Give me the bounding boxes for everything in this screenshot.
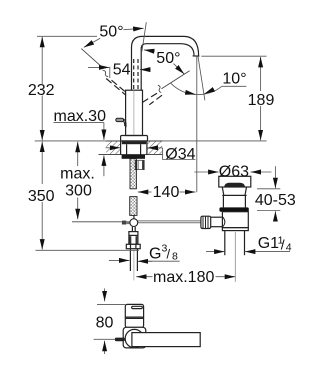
svg-text:Ø63: Ø63 xyxy=(219,164,249,181)
drain centerline xyxy=(234,232,236,282)
10 deg arc xyxy=(171,83,222,94)
dim 140 xyxy=(138,184,196,201)
swung spout dashed pair xyxy=(133,59,135,90)
deck top thick segment xyxy=(106,140,163,142)
base flange xyxy=(121,136,148,141)
deck hatching right xyxy=(147,141,162,154)
drain mid body xyxy=(222,195,224,207)
extension line at bend xyxy=(142,22,146,51)
deck hatching left xyxy=(106,141,120,154)
supply pipe centerline xyxy=(133,249,135,280)
bottom view lever xyxy=(132,333,200,347)
bottom view set screw xyxy=(115,338,125,342)
bottom view pivot circle xyxy=(125,329,143,347)
dim max.30 xyxy=(54,108,107,176)
dim 54 xyxy=(88,62,151,79)
drain lower body xyxy=(222,212,248,228)
gasket under flange xyxy=(122,141,146,144)
10 deg label xyxy=(222,71,247,88)
braided hose upper xyxy=(130,159,136,189)
svg-text:Ø34: Ø34 xyxy=(165,146,195,163)
svg-text:10°: 10° xyxy=(222,71,246,88)
drain gasket xyxy=(219,207,248,211)
knurled knob xyxy=(201,216,211,228)
supply pipe xyxy=(129,249,131,271)
svg-text:140: 140 xyxy=(153,184,180,201)
dim 350 xyxy=(28,142,139,251)
10 deg arrows xyxy=(186,92,196,94)
bottom view slot xyxy=(132,306,143,308)
ball joint neck xyxy=(131,227,133,232)
dim 50 deg leader line C xyxy=(84,38,100,47)
svg-text:/: / xyxy=(281,236,285,252)
50 deg right leader to extension xyxy=(144,50,155,51)
spout tip outlet xyxy=(193,55,200,57)
drain side port xyxy=(206,217,222,227)
dim 232 xyxy=(28,37,55,141)
svg-text:80: 80 xyxy=(96,314,114,331)
svg-text:54: 54 xyxy=(113,62,131,79)
drain plug dome xyxy=(224,183,245,187)
swing line left xyxy=(81,49,102,67)
dim 40-53 xyxy=(255,166,296,221)
label G 3/8 xyxy=(109,243,180,263)
bottom view divider xyxy=(125,316,143,318)
svg-text:8: 8 xyxy=(172,251,178,263)
svg-text:G1: G1 xyxy=(258,235,279,252)
10 deg slant line xyxy=(198,56,205,100)
pull rod link xyxy=(133,215,135,218)
vertical extension from spout outlet xyxy=(196,56,198,192)
svg-text:G: G xyxy=(149,246,161,263)
svg-text:max.: max. xyxy=(60,166,95,183)
deck hole edges xyxy=(120,141,122,155)
pop-up rod horizontal xyxy=(72,221,122,223)
deck reference line xyxy=(35,140,267,142)
check valve xyxy=(129,232,138,245)
50 deg right leader to swing line xyxy=(174,64,185,75)
svg-text:40-53: 40-53 xyxy=(255,192,296,209)
dim max.300 xyxy=(60,142,95,219)
drain flange block xyxy=(219,176,251,187)
svg-text:232: 232 xyxy=(28,82,55,99)
dim 80 xyxy=(94,288,126,354)
dim max.180 xyxy=(136,269,235,286)
drain neck xyxy=(222,187,246,195)
dim diam 34 xyxy=(106,146,196,163)
dim diam 63 xyxy=(194,164,271,181)
body centerline xyxy=(133,90,135,135)
lever handle xyxy=(116,118,126,127)
threaded shank xyxy=(126,144,128,154)
bottom view body xyxy=(125,304,143,327)
bottom view base xyxy=(123,327,146,348)
swing line right xyxy=(162,71,190,89)
svg-text:/: / xyxy=(167,247,171,262)
drain body lip xyxy=(222,228,248,231)
ball joint xyxy=(130,219,138,227)
dim 189 xyxy=(201,56,274,140)
label G 1 1/4 xyxy=(206,234,292,253)
rod clevis xyxy=(122,221,126,225)
svg-text:350: 350 xyxy=(28,188,55,205)
faucet body xyxy=(126,90,143,135)
svg-text:50°: 50° xyxy=(99,24,123,41)
dim 232 ref top line xyxy=(37,35,97,37)
connection nut xyxy=(126,244,140,248)
svg-text:189: 189 xyxy=(248,92,275,109)
svg-text:max.180: max.180 xyxy=(153,269,214,286)
mounting nut xyxy=(122,155,145,159)
deck bottom line xyxy=(99,154,163,156)
svg-text:50°: 50° xyxy=(156,50,180,67)
braided hose lower xyxy=(130,197,137,216)
hose fitting xyxy=(135,160,144,169)
svg-text:300: 300 xyxy=(65,183,92,200)
spout tube xyxy=(132,36,199,90)
drain tail pipe xyxy=(224,231,226,256)
dim 50 deg left arrow to extension xyxy=(124,28,144,29)
